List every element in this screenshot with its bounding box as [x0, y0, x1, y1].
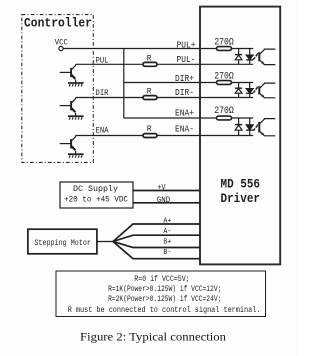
svg-text:GND: GND — [157, 197, 171, 205]
controller box — [22, 15, 94, 163]
svg-text:MD 556: MD 556 — [221, 178, 261, 192]
resistor R (DIR-) — [143, 88, 157, 100]
svg-text:R: R — [147, 88, 152, 97]
ground (Q1) — [68, 83, 84, 86]
svg-text:270Ω: 270Ω — [214, 37, 234, 48]
wire motor stub — [97, 241, 113, 243]
wire PUL- inside driver — [200, 63, 253, 65]
ground (Q2) — [68, 116, 84, 119]
transistor Q2 — [60, 98, 76, 117]
resistor 270ohm (DIR+) — [214, 71, 234, 84]
svg-text:R=2K(Power>0.125W) if VCC=24V;: R=2K(Power>0.125W) if VCC=24V; — [108, 295, 221, 304]
svg-text:Stepping Motor: Stepping Motor — [34, 239, 91, 248]
svg-text:ENA+: ENA+ — [175, 108, 194, 118]
svg-text:R=0 if VCC=5V;: R=0 if VCC=5V; — [134, 275, 189, 284]
resistor 270ohm (ENA+) — [214, 106, 234, 120]
wire DIR+ after resistor — [232, 82, 254, 84]
resistor 270ohm (PUL+) — [214, 37, 234, 50]
driver box MD556 — [200, 7, 280, 265]
wire PUL- — [76, 63, 200, 65]
svg-text:DIR+: DIR+ — [175, 74, 194, 84]
wire DIR+ — [124, 82, 217, 84]
svg-text:R=1K(Power>0.125W) if VCC=12V;: R=1K(Power>0.125W) if VCC=12V; — [108, 285, 221, 294]
svg-text:270Ω: 270Ω — [214, 106, 234, 117]
wire PUL+ after resistor — [232, 48, 254, 50]
svg-text:DIR-: DIR- — [175, 88, 194, 98]
wire +V — [133, 190, 200, 192]
wire VCC vertical feed rail — [123, 49, 125, 119]
wire ENA+ after resistor — [232, 117, 254, 119]
diode D1 protection (PUL opto) — [235, 49, 242, 65]
LED optocoupler U3 — [246, 118, 253, 136]
diode D2 protection (DIR opto) — [235, 83, 242, 98]
svg-text:+20 to +45 VDC: +20 to +45 VDC — [64, 196, 128, 205]
node VCC terminal — [59, 46, 63, 50]
dc supply box — [60, 182, 133, 208]
wire VCC / PUL+ rail — [63, 48, 216, 50]
svg-text:B+: B+ — [163, 239, 171, 247]
transistor Q1 — [60, 64, 76, 83]
wire GND — [133, 202, 200, 204]
svg-text:R: R — [147, 54, 152, 63]
wire DIR- inside driver — [200, 97, 253, 99]
svg-text:A-: A- — [163, 228, 171, 236]
svg-text:Driver: Driver — [221, 192, 261, 206]
svg-text:PUL+: PUL+ — [177, 41, 196, 51]
svg-text:PUL: PUL — [96, 55, 109, 65]
stepping motor box — [28, 229, 97, 254]
LED optocoupler U1 — [246, 49, 253, 65]
svg-text:Controller: Controller — [24, 15, 92, 30]
wire DIR- — [76, 97, 200, 99]
diode D3 protection (ENA opto) — [235, 118, 242, 136]
svg-text:+V: +V — [158, 184, 166, 192]
svg-text:Figure 2: Typical connection: Figure 2: Typical connection — [80, 329, 226, 343]
svg-text:ENA-: ENA- — [175, 125, 194, 135]
wire motor to B- — [113, 242, 200, 259]
phototransistor U2 — [253, 83, 275, 98]
wire motor to A+ — [113, 224, 200, 242]
LED optocoupler U2 — [246, 83, 253, 98]
wire ENA+ — [124, 117, 217, 119]
svg-text:PUL-: PUL- — [177, 55, 196, 65]
svg-text:R must be connected to control: R must be connected to control signal te… — [68, 306, 261, 315]
ground (Q3) — [68, 154, 84, 157]
svg-text:270Ω: 270Ω — [214, 71, 234, 82]
notes box — [56, 271, 266, 317]
phototransistor U3 — [253, 119, 275, 136]
phototransistor U1 — [253, 49, 275, 65]
svg-text:ENA: ENA — [96, 125, 110, 135]
transistor Q3 — [60, 136, 76, 155]
svg-text:R: R — [147, 125, 152, 134]
svg-text:DIR: DIR — [96, 88, 109, 98]
wire ENA- — [76, 135, 200, 137]
resistor R (PUL-) — [143, 54, 157, 66]
wire motor to B+ — [113, 242, 200, 248]
svg-text:B-: B- — [163, 249, 171, 257]
svg-text:DC Supply: DC Supply — [73, 185, 118, 194]
svg-text:A+: A+ — [163, 218, 171, 226]
wire ENA- inside driver — [200, 135, 253, 137]
wire motor to A- — [113, 235, 200, 241]
resistor R (ENA-) — [143, 125, 157, 138]
